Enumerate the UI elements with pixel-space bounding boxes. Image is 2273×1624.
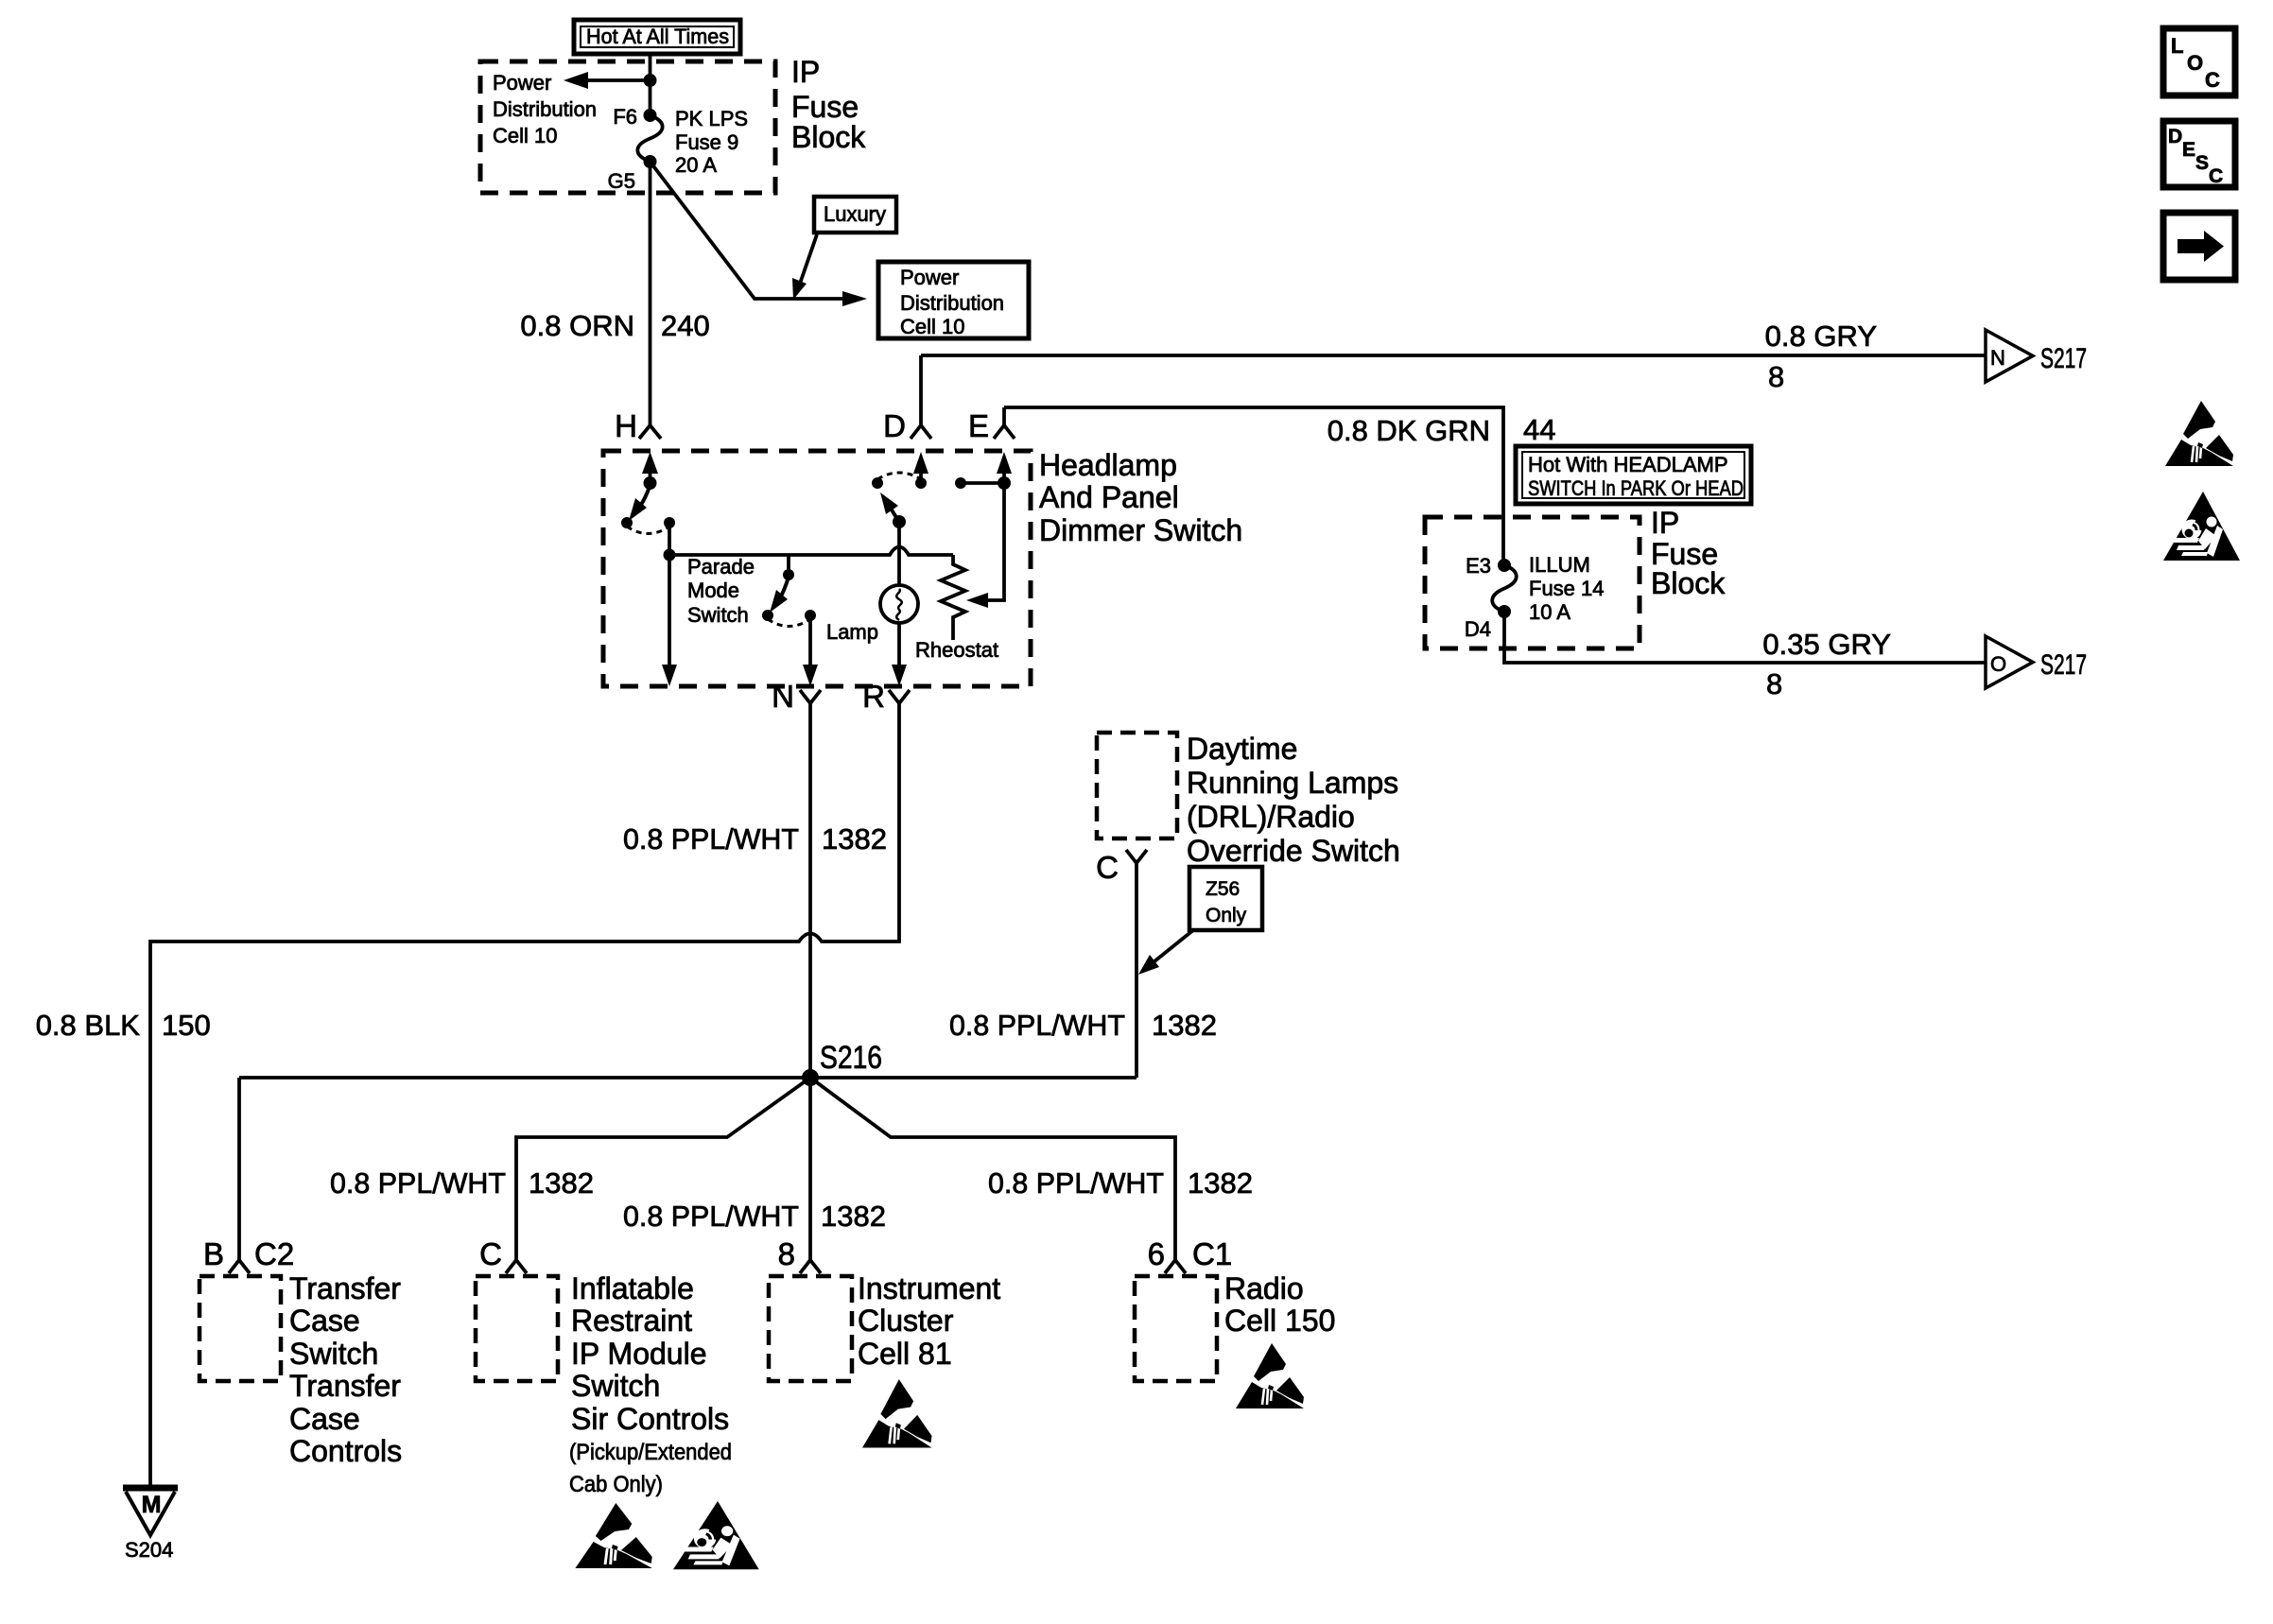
svg-text:1382: 1382	[529, 1166, 594, 1200]
svg-text:C1: C1	[1192, 1236, 1232, 1271]
svg-text:M: M	[142, 1492, 162, 1518]
svg-text:0.8 PPL/WHT: 0.8 PPL/WHT	[623, 822, 799, 855]
svg-text:C: C	[479, 1236, 502, 1271]
svg-text:Hot At All Times: Hot At All Times	[586, 25, 729, 48]
svg-text:IP Module: IP Module	[571, 1337, 707, 1371]
svg-text:Restraint: Restraint	[571, 1304, 692, 1338]
svg-text:H: H	[615, 408, 637, 443]
svg-text:And Panel: And Panel	[1039, 480, 1179, 514]
svg-text:1382: 1382	[1152, 1009, 1217, 1042]
svg-text:Transfer: Transfer	[289, 1369, 401, 1403]
svg-text:IP: IP	[791, 55, 820, 89]
svg-text:PK LPS: PK LPS	[675, 107, 748, 130]
svg-text:R: R	[862, 679, 885, 714]
svg-text:20 A: 20 A	[675, 153, 717, 177]
svg-text:Rheostat: Rheostat	[915, 638, 998, 662]
svg-text:E: E	[2182, 139, 2195, 161]
svg-text:Instrument: Instrument	[858, 1271, 1000, 1305]
svg-text:0.8 PPL/WHT: 0.8 PPL/WHT	[949, 1009, 1125, 1042]
svg-text:0.8 ORN: 0.8 ORN	[520, 309, 634, 342]
svg-text:C: C	[1096, 850, 1119, 885]
svg-text:C2: C2	[254, 1236, 294, 1271]
svg-text:0.8 GRY: 0.8 GRY	[1765, 320, 1877, 353]
svg-text:Switch: Switch	[289, 1337, 378, 1371]
svg-text:Power: Power	[900, 266, 959, 289]
svg-text:Cluster: Cluster	[858, 1304, 954, 1338]
svg-text:Switch: Switch	[687, 603, 749, 627]
svg-text:Cell 10: Cell 10	[493, 124, 557, 147]
svg-text:0.8 PPL/WHT: 0.8 PPL/WHT	[330, 1166, 506, 1200]
svg-text:Hot With HEADLAMP: Hot With HEADLAMP	[1528, 453, 1728, 476]
svg-text:0.8 PPL/WHT: 0.8 PPL/WHT	[623, 1200, 799, 1233]
svg-text:Cell 81: Cell 81	[858, 1337, 952, 1371]
svg-text:Inflatable: Inflatable	[571, 1271, 694, 1305]
svg-text:1382: 1382	[822, 822, 887, 855]
svg-text:Fuse 14: Fuse 14	[1529, 577, 1605, 600]
svg-text:L: L	[2171, 34, 2183, 58]
svg-text:0.8 BLK: 0.8 BLK	[36, 1009, 141, 1042]
svg-text:Only: Only	[1206, 905, 1247, 926]
svg-text:N: N	[772, 679, 794, 714]
svg-text:S204: S204	[125, 1538, 173, 1562]
svg-text:(Pickup/Extended: (Pickup/Extended	[569, 1440, 732, 1465]
svg-text:Power: Power	[493, 71, 551, 95]
svg-text:ILLUM: ILLUM	[1529, 553, 1590, 577]
svg-text:8: 8	[1768, 360, 1784, 393]
svg-text:Distribution: Distribution	[900, 291, 1004, 315]
svg-text:8: 8	[778, 1236, 795, 1271]
svg-text:Running Lamps: Running Lamps	[1187, 766, 1398, 800]
svg-text:1382: 1382	[821, 1200, 886, 1233]
svg-text:Sir Controls: Sir Controls	[571, 1402, 729, 1436]
svg-text:N: N	[1990, 346, 2005, 370]
svg-text:(DRL)/Radio: (DRL)/Radio	[1187, 800, 1355, 834]
svg-text:Daytime: Daytime	[1187, 732, 1297, 766]
svg-text:0.35 GRY: 0.35 GRY	[1762, 628, 1891, 661]
svg-text:C: C	[2205, 68, 2220, 92]
svg-text:Block: Block	[791, 120, 866, 154]
svg-text:Controls: Controls	[289, 1434, 402, 1468]
svg-text:Parade: Parade	[687, 555, 755, 579]
svg-text:IP: IP	[1651, 506, 1679, 540]
svg-text:F6: F6	[613, 105, 637, 129]
svg-text:6: 6	[1148, 1236, 1165, 1271]
svg-text:S217: S217	[2040, 649, 2087, 681]
svg-text:0.8 DK GRN: 0.8 DK GRN	[1327, 414, 1490, 447]
svg-text:S217: S217	[2040, 343, 2087, 374]
svg-text:Transfer: Transfer	[289, 1271, 401, 1305]
svg-text:240: 240	[661, 309, 710, 342]
svg-text:Override Switch: Override Switch	[1187, 834, 1400, 868]
svg-text:44: 44	[1523, 413, 1555, 446]
svg-text:D4: D4	[1465, 617, 1491, 641]
svg-text:Case: Case	[289, 1402, 360, 1436]
svg-text:Switch: Switch	[571, 1369, 660, 1403]
svg-text:G5: G5	[608, 169, 635, 193]
svg-text:Headlamp: Headlamp	[1039, 448, 1177, 482]
svg-text:O: O	[2187, 51, 2203, 75]
svg-text:Case: Case	[289, 1304, 360, 1338]
svg-text:Lamp: Lamp	[826, 620, 878, 644]
svg-text:D: D	[2168, 126, 2182, 147]
svg-text:0.8 PPL/WHT: 0.8 PPL/WHT	[988, 1166, 1164, 1200]
svg-text:C: C	[2209, 165, 2223, 187]
svg-text:E: E	[968, 408, 989, 443]
svg-text:Fuse 9: Fuse 9	[675, 130, 738, 154]
svg-text:Z56: Z56	[1206, 878, 1240, 900]
svg-text:Distribution: Distribution	[493, 97, 597, 121]
svg-text:10 A: 10 A	[1529, 600, 1570, 624]
svg-text:E3: E3	[1466, 554, 1491, 578]
svg-text:8: 8	[1766, 667, 1782, 700]
svg-text:SWITCH In PARK Or HEAD: SWITCH In PARK Or HEAD	[1528, 476, 1744, 500]
svg-text:Mode: Mode	[687, 579, 739, 602]
svg-text:Cell 150: Cell 150	[1224, 1304, 1335, 1338]
svg-text:Dimmer Switch: Dimmer Switch	[1039, 513, 1242, 547]
svg-text:Cell 10: Cell 10	[900, 315, 964, 338]
svg-text:Cab Only): Cab Only)	[569, 1472, 663, 1497]
svg-text:S: S	[2195, 152, 2209, 174]
svg-text:150: 150	[162, 1009, 211, 1042]
svg-text:Luxury: Luxury	[824, 202, 886, 226]
svg-text:1382: 1382	[1188, 1166, 1253, 1200]
svg-text:Block: Block	[1651, 566, 1726, 600]
svg-text:Radio: Radio	[1224, 1271, 1304, 1305]
svg-text:Fuse: Fuse	[791, 90, 859, 124]
svg-text:S216: S216	[820, 1040, 882, 1076]
svg-text:B: B	[203, 1236, 224, 1271]
svg-text:D: D	[883, 408, 906, 443]
svg-text:O: O	[1990, 652, 2006, 676]
